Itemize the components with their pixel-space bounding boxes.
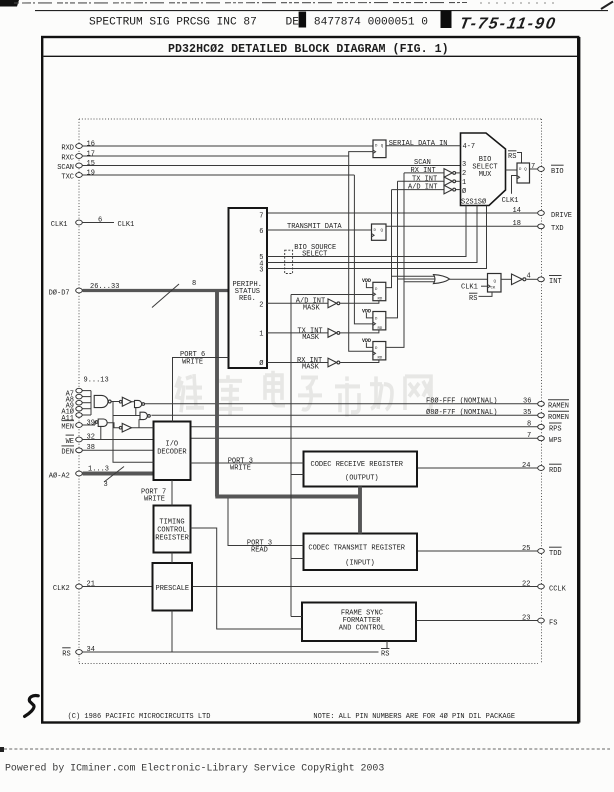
svg-text:39: 39 (87, 419, 95, 427)
label RS below int ff (469, 292, 492, 303)
svg-text:WE: WE (66, 438, 74, 446)
svg-text:WRITE: WRITE (230, 465, 251, 473)
wire periph pin6 to transmit ff (267, 229, 372, 231)
inverter a/d int into mux pin 0 (444, 185, 461, 194)
svg-text:8: 8 (527, 421, 531, 429)
men inverter with input bubble (119, 423, 153, 432)
black bar before handwriting (441, 11, 452, 29)
wm glyph 1 (175, 374, 204, 412)
port 3 read wire from bus to codec transmit (228, 498, 304, 545)
wire mux output to bio ff (506, 169, 518, 171)
svg-text:ROMEN: ROMEN (548, 414, 569, 422)
svg-text:REG.: REG. (239, 295, 256, 303)
svg-text:RX INT: RX INT (411, 167, 436, 175)
address input comb (90, 391, 92, 415)
svg-text:MASK: MASK (303, 304, 321, 312)
black bar after DE (299, 12, 307, 28)
svg-text:35: 35 (523, 409, 531, 417)
svg-text:36: 36 (523, 398, 531, 406)
port 7 write wire decoder to timing reg (171, 480, 173, 506)
svg-text:I/O: I/O (166, 440, 179, 448)
stray mark top-right corner (601, 2, 613, 10)
pin MEN 39 (active low) (61, 419, 95, 431)
pin INT 4 (active low) (527, 272, 562, 286)
rx int mask flip-flop (373, 342, 386, 361)
riser into ramen nand lower input (135, 408, 137, 416)
strobe stub to codec receive (291, 474, 304, 476)
address buffer with input bubble (119, 397, 134, 406)
svg-text:RPS: RPS (549, 426, 562, 434)
pin CLK2 21 (53, 580, 153, 593)
timing register to prescale wire (171, 553, 173, 564)
label CLK1 at int ff (461, 284, 488, 292)
svg-text:(OUTPUT): (OUTPUT) (345, 474, 379, 482)
svg-text:7: 7 (259, 213, 263, 221)
periph-status register block (229, 208, 268, 368)
we riser into men gate bottom (100, 427, 102, 440)
svg-text:FS: FS (549, 619, 557, 627)
romen nand lower input from men path (138, 419, 140, 428)
svg-text:NOTE: ALL PIN NUMBERS ARE FOR: NOTE: ALL PIN NUMBERS ARE FOR 4Ø PIN DIL… (313, 712, 515, 721)
svg-text:CODEC TRANSMIT REGISTER: CODEC TRANSMIT REGISTER (308, 544, 405, 552)
svg-text:RS: RS (62, 651, 70, 659)
svg-text:19: 19 (87, 169, 95, 177)
svg-text:22: 22 (522, 580, 530, 588)
svg-text:3: 3 (104, 481, 108, 489)
select line S0 riser to mux (267, 206, 487, 269)
torn black strip top-left (0, 0, 19, 7)
pin TXD 18 (386, 220, 564, 233)
address nand gate (5-input) (94, 395, 119, 407)
svg-text:CK: CK (491, 287, 496, 291)
right border emphasis (579, 37, 581, 723)
data bus vertical riser (215, 291, 219, 497)
svg-text:RD: RD (378, 357, 383, 361)
svg-text:TDD: TDD (549, 550, 562, 558)
tx ff output riser to mux row and int join (386, 181, 398, 318)
prescale block (153, 563, 193, 611)
svg-text:TIMING: TIMING (159, 518, 184, 526)
wire RXC jog to serial ff clock (349, 152, 373, 156)
select line S2 riser to mux (267, 206, 466, 257)
svg-text:9...13: 9...13 (84, 377, 109, 385)
svg-text:T-75-11-90: T-75-11-90 (458, 15, 558, 33)
wire periph pin0 to rx mask buffer (267, 362, 328, 364)
svg-text:1: 1 (462, 179, 466, 187)
strobe wire into frame sync box (291, 616, 302, 618)
frame sync rs wire (386, 641, 388, 648)
svg-text:Ø: Ø (259, 359, 263, 368)
pin FS 23 (416, 614, 557, 627)
svg-text:Ø8Ø-F7F (NOMINAL): Ø8Ø-F7F (NOMINAL) (426, 408, 497, 417)
pin D0-D7 26...33 bus (49, 280, 229, 307)
svg-text:8: 8 (192, 280, 196, 288)
svg-text:21: 21 (87, 580, 95, 588)
inverter to INT pin (501, 274, 526, 285)
label RS above bio ff (508, 151, 522, 163)
svg-text:CLK2: CLK2 (53, 585, 70, 593)
svg-text:24: 24 (522, 462, 530, 470)
timing control register block (154, 506, 191, 553)
pin ROMEN 35 with 080-F7F (NOMINAL) (151, 408, 569, 422)
svg-text:SCAN: SCAN (57, 164, 74, 172)
codec transmit register block (304, 534, 418, 571)
pin SCAN 15 (57, 160, 460, 172)
svg-text:CODEC RECEIVE REGISTER: CODEC RECEIVE REGISTER (311, 461, 404, 469)
wm glyph 5 (335, 376, 360, 416)
svg-text:DRIVE: DRIVE (551, 212, 572, 220)
svg-text:CLK1: CLK1 (461, 284, 478, 292)
svg-text:MEN: MEN (61, 423, 74, 431)
svg-text:SERIAL DATA IN: SERIAL DATA IN (389, 140, 448, 148)
svg-text:4-7: 4-7 (463, 143, 476, 151)
svg-text:RS: RS (508, 153, 516, 161)
wm glyph 4 (298, 377, 322, 409)
nand gate for romen (140, 412, 150, 419)
label PORT 6 WRITE (180, 351, 205, 366)
svg-text:(INPUT): (INPUT) (345, 559, 374, 567)
pin DRIVE 14 (267, 207, 572, 220)
svg-text:MASK: MASK (302, 364, 320, 372)
frame sync formatter and control block (302, 603, 416, 642)
svg-text:17: 17 (87, 150, 95, 158)
svg-text:RAMEN: RAMEN (548, 403, 569, 411)
handwritten T-75-11-90 (458, 15, 558, 33)
svg-text:WRITE: WRITE (144, 496, 165, 504)
pin A0-A2 1...3 bus (49, 466, 154, 489)
select line S1 riser to mux (267, 206, 477, 263)
wm glyph 3 (265, 371, 285, 406)
svg-text:6: 6 (98, 216, 102, 224)
pin DEN 38 (active low) (61, 444, 153, 457)
wire clk1 to bio ff (512, 176, 518, 194)
title underline (43, 55, 577, 57)
pin RDD 24 (active low) (417, 462, 562, 475)
handwritten S mark (25, 696, 39, 717)
wire RXC riser down to rx int ff clock (349, 156, 373, 351)
ragged scan line across top (14, 2, 470, 5)
svg-text:RXC: RXC (61, 154, 74, 162)
vdd label for tx int ff (362, 308, 373, 318)
svg-text:CLK1: CLK1 (502, 197, 519, 205)
svg-text:RXD: RXD (61, 144, 74, 152)
svg-text:CCLK: CCLK (549, 585, 567, 593)
wire serial ff Q to mux pin 4-7 (386, 145, 461, 147)
svg-text:SELECT: SELECT (302, 251, 327, 259)
svg-text:15: 15 (87, 160, 95, 168)
inverter rx int into mux pin 2 (444, 169, 461, 178)
svg-text:WPS: WPS (549, 437, 562, 445)
pin BIO 7 (active low) (530, 163, 564, 176)
wire TXC riser down to tx int ff clock (354, 175, 373, 324)
svg-text:TX INT: TX INT (412, 175, 437, 183)
int flip-flop (488, 274, 502, 293)
svg-text:2: 2 (259, 301, 263, 309)
bio output flip-flop (517, 163, 530, 183)
header rule (35, 10, 608, 12)
svg-text:25: 25 (522, 545, 530, 553)
strobe stub to codec transmit (291, 558, 304, 560)
svg-text:CONTROL: CONTROL (157, 526, 186, 534)
footer dark tick (0, 747, 4, 752)
svg-text:32: 32 (87, 433, 95, 441)
svg-text:DE: DE (286, 17, 300, 29)
svg-text:18: 18 (513, 220, 521, 228)
data bus horizontal run (215, 495, 360, 499)
rx mask buffer (328, 358, 379, 367)
a/d int mask flip-flop (373, 282, 386, 301)
svg-text:(C) 1986 PACIFIC MICROCIRCUITS: (C) 1986 PACIFIC MICROCIRCUITS LTD (68, 713, 211, 721)
svg-text:DEN: DEN (61, 449, 74, 457)
nand gate for ramen (135, 400, 145, 407)
pin TDD 25 (active low) (417, 545, 562, 558)
long strobe vertical x291 (290, 295, 292, 617)
svg-text:RD: RD (378, 327, 383, 331)
svg-text:RDD: RDD (549, 467, 562, 475)
wire x291 riser to a/d ff clock (291, 294, 373, 296)
svg-text:RS: RS (381, 650, 389, 658)
junction riser from address decode down (113, 402, 140, 416)
vdd label for rx int ff (362, 338, 373, 348)
label BIO SOURCE SELECT (294, 244, 336, 259)
svg-text:Powered by ICminer.com Electro: Powered by ICminer.com Electronic-Librar… (5, 763, 384, 774)
label PORT 7 WRITE (141, 488, 166, 503)
wire periph pin2 to a/d mask buffer (267, 302, 328, 304)
svg-text:CLK1: CLK1 (118, 221, 135, 229)
svg-text:TXD: TXD (551, 225, 564, 233)
pin RXC 17 (61, 150, 348, 162)
a/d ff output riser to mux row and int join (386, 190, 392, 288)
port 3 write wire decoder to codec receive (191, 462, 304, 464)
pin RS 34 (active low) (62, 646, 378, 659)
svg-text:DECODER: DECODER (157, 448, 187, 456)
i/o decoder block (154, 422, 191, 481)
wire a/d int row to inverter (392, 189, 445, 191)
pin CLK1 6 stub (51, 216, 135, 229)
svg-text:S2S1SØ: S2S1SØ (461, 197, 486, 206)
svg-text:A11: A11 (61, 415, 74, 423)
svg-text:TXC: TXC (61, 173, 74, 181)
svg-text:7: 7 (531, 163, 535, 171)
prescale to rs line wire (171, 611, 173, 653)
svg-text:INT: INT (549, 278, 562, 286)
label TX INT MASK (297, 327, 322, 342)
svg-text:PD32HCØ2 DETAILED BLOCK DIAGRA: PD32HCØ2 DETAILED BLOCK DIAGRAM (FIG. 1) (168, 43, 449, 56)
pin RXD 16 (61, 140, 373, 152)
transmit data flip-flop (372, 224, 387, 240)
label A/D INT MASK (296, 298, 325, 313)
tx int mask flip-flop (373, 312, 386, 331)
svg-text:AND CONTROL: AND CONTROL (339, 625, 385, 633)
label PORT 3 READ (247, 539, 272, 554)
data bus vertical to codec registers (358, 487, 362, 534)
codec receive register block (304, 452, 418, 487)
wire tx int row to inverter (398, 180, 445, 182)
svg-text:16: 16 (87, 140, 95, 148)
dotted boundary rectangle of device (79, 118, 542, 120)
rx ff output riser to mux row and int join (386, 173, 404, 348)
svg-text:WRITE: WRITE (182, 358, 203, 366)
dashed box bio source select (285, 250, 293, 273)
light gray chinese watermark (drawn approximations) (175, 371, 431, 417)
wire periph pin1 to tx mask buffer (267, 332, 328, 334)
svg-text:AØ-A2: AØ-A2 (49, 471, 70, 480)
svg-text:3: 3 (462, 161, 466, 169)
a/d mask buffer (328, 299, 379, 308)
pin WE 32 (active low) (66, 433, 154, 446)
pins A7-A11 9...13 (61, 377, 108, 423)
svg-text:1: 1 (259, 331, 263, 339)
svg-text:14: 14 (513, 207, 521, 215)
svg-text:8477874 0000051 0: 8477874 0000051 0 (314, 17, 428, 29)
port 6 write wire to periph reg (173, 358, 229, 422)
svg-text:DØ-D7: DØ-D7 (49, 288, 70, 297)
pin RAMEN 36 with F80-FFF (NOMINAL) (145, 397, 570, 411)
svg-text:38: 38 (87, 444, 95, 452)
svg-text:RD: RD (378, 298, 383, 302)
inverter tx int into mux pin 1 (444, 177, 461, 186)
svg-text:READ: READ (251, 547, 268, 555)
svg-text:MASK: MASK (302, 334, 320, 342)
svg-text:BIO: BIO (551, 168, 564, 176)
pin WPS 7 (191, 432, 562, 445)
bio select mux block (461, 133, 506, 206)
svg-text:RS: RS (469, 295, 477, 303)
vdd label for a/d int ff (362, 278, 373, 288)
riser from address decode to io decoder (113, 416, 154, 463)
footer dashed rule (4, 748, 610, 750)
svg-text:SPECTRUM SIG PRCSG INC 87: SPECTRUM SIG PRCSG INC 87 (89, 17, 257, 29)
pin RPS 8 (active low) (191, 421, 562, 434)
timing control register output to frame sync (191, 528, 303, 629)
label RS at frame sync (381, 649, 389, 659)
svg-text:F8Ø-FFF (NOMINAL): F8Ø-FFF (NOMINAL) (426, 397, 497, 406)
tx mask buffer (328, 329, 379, 338)
svg-text:CLK1: CLK1 (51, 221, 68, 229)
svg-text:7: 7 (527, 432, 531, 440)
wm glyph 6 (370, 376, 392, 410)
serial data in flip-flop (373, 140, 386, 158)
figure border box (42, 37, 578, 723)
svg-text:REGISTER: REGISTER (155, 534, 189, 542)
wire men pin bubble jog (94, 422, 96, 425)
svg-text:SCAN: SCAN (414, 159, 431, 167)
wire rx int row to inverter (404, 172, 444, 174)
svg-text:34: 34 (87, 646, 95, 654)
pin TXC 19 (61, 169, 354, 181)
svg-text:23: 23 (522, 614, 530, 622)
svg-text:6: 6 (259, 228, 263, 236)
svg-text:MUX: MUX (479, 171, 492, 179)
svg-text:4: 4 (527, 272, 531, 280)
int join gate (wired-or taper) (392, 275, 488, 284)
svg-text:PRESCALE: PRESCALE (156, 585, 190, 593)
wm glyph 7 (405, 376, 431, 410)
wm glyph 2 (215, 375, 243, 415)
label PORT 3 WRITE (228, 457, 253, 472)
men gate with input bubble (95, 419, 119, 428)
label RX INT MASK (297, 357, 322, 372)
svg-text:2: 2 (462, 170, 466, 178)
pin CCLK 22 (192, 580, 567, 593)
svg-text:Ø: Ø (462, 187, 466, 196)
svg-text:A/D INT: A/D INT (408, 184, 437, 192)
svg-text:3: 3 (259, 267, 263, 275)
